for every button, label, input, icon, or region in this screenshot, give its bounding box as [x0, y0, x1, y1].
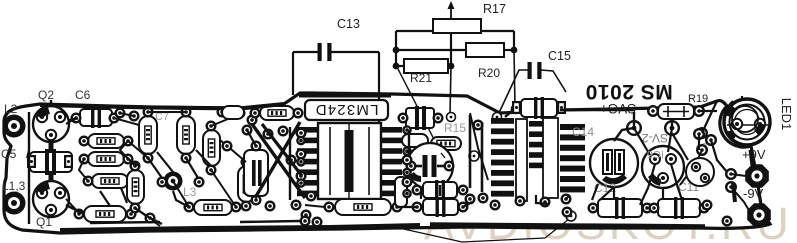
pad midleft3 — [222, 141, 233, 152]
svg-text:C6: C6 — [75, 88, 91, 102]
pad x7 — [306, 191, 317, 202]
svg-text:L1,3: L1,3 — [2, 179, 26, 193]
pad edge1 — [115, 108, 126, 119]
trace r1 — [128, 141, 148, 158]
wire right rail — [513, 31, 515, 50]
wire C13 right drop to IC pin — [378, 52, 380, 133]
connector slot right — [543, 118, 558, 198]
capacitor C9 vertical — [244, 150, 268, 196]
pad bl1 — [145, 213, 156, 224]
trace vt2 legs2 — [671, 164, 682, 200]
svg-text:L2: L2 — [4, 102, 18, 116]
trace midleft e — [220, 140, 246, 162]
svg-text:+9V: +9V — [742, 147, 766, 162]
trace r6 down — [211, 170, 236, 207]
capacitor C5 — [30, 149, 72, 175]
resistor R10 — [260, 106, 294, 120]
svg-text:C13: C13 — [337, 17, 360, 31]
svg-text:MS 2010: MS 2010 — [585, 80, 673, 103]
trace bottom rail — [60, 225, 420, 230]
capacitor C18 — [423, 197, 458, 217]
capacitor C6 — [80, 107, 112, 128]
wire R21 rail — [396, 65, 404, 67]
pad C6 left — [71, 113, 82, 124]
trace bottom rail right — [430, 225, 705, 227]
trace Q2 wedge — [36, 107, 50, 119]
capacitor C8 smd — [406, 106, 434, 130]
node junction left-mid — [393, 47, 400, 54]
pad e1 — [696, 127, 708, 139]
trace right cluster — [680, 150, 702, 185]
pad C16 right — [444, 161, 455, 172]
trace r19 corner — [702, 101, 717, 133]
resistor R13 — [431, 137, 461, 150]
trace edge band over LM324D — [299, 93, 391, 98]
wire C13 left lead — [293, 51, 319, 53]
trace diag end — [441, 153, 445, 158]
pad t1 — [235, 108, 246, 119]
inner bottom band left — [90, 222, 160, 223]
trace hex1 to LED — [750, 150, 752, 166]
trace rows gap a — [100, 191, 110, 206]
trace left rail taps — [27, 150, 29, 158]
trace C5 to Q1 — [49, 172, 54, 181]
capacitor C10 — [521, 97, 557, 119]
pad x5 — [301, 210, 312, 221]
wire C15 right lead — [541, 70, 566, 92]
trace Q2 to C5 — [49, 142, 54, 152]
svg-text:R19: R19 — [688, 93, 708, 105]
pad x2 — [286, 155, 297, 166]
svg-text:R21: R21 — [410, 71, 432, 85]
svg-text:R20: R20 — [478, 66, 500, 80]
trace L3 down — [173, 181, 189, 207]
pad y0 — [469, 151, 479, 161]
pad z1 — [561, 194, 572, 205]
pad C16 left — [406, 161, 417, 172]
wire C15 left lead to pad — [498, 70, 528, 115]
resistor R16 vertical — [395, 177, 407, 207]
pad z2 — [562, 207, 573, 218]
wire C13 right lead — [331, 51, 379, 53]
trace C10 down — [505, 110, 513, 117]
resistor R11 — [84, 206, 126, 222]
wire wiper to pad — [450, 66, 451, 114]
trace under ladder — [536, 195, 548, 204]
trace X cross 3 — [262, 124, 302, 176]
resistor R6 — [203, 130, 220, 166]
transistor Q1 — [33, 181, 69, 217]
pad C6 right — [109, 113, 120, 124]
trace top caps — [148, 111, 186, 113]
pads right cluster e3 — [693, 128, 705, 140]
trace left vertical rail — [28, 112, 30, 224]
trace X cross 1 — [252, 124, 305, 198]
pad C5 right — [64, 155, 73, 168]
capacitor C13 — [318, 43, 332, 61]
trace mid right — [470, 113, 488, 180]
IC label strip LM324D — [305, 100, 388, 120]
trace midleft c — [173, 191, 189, 207]
resistor R3 — [92, 174, 128, 188]
pad right rail target — [512, 105, 521, 114]
arrow of R17 wiper — [448, 1, 455, 19]
pads flanking IC right — [402, 155, 413, 166]
svg-text:SV-2: SV-2 — [642, 131, 668, 145]
trace s2 up — [671, 112, 673, 128]
LED inner ring — [732, 106, 758, 132]
resistor R5 — [335, 199, 391, 215]
resistor R14 small — [222, 106, 244, 119]
trace m1 — [247, 130, 256, 146]
inner bottom band mid — [240, 221, 300, 222]
capacitor C17 — [423, 180, 457, 200]
resistor R21 — [404, 59, 448, 73]
trace ladder feed — [469, 115, 472, 188]
trace ladder left column — [491, 118, 514, 124]
trace rail left of IC — [289, 127, 291, 200]
pad br2 — [722, 216, 733, 227]
transistor VT1 partial — [686, 158, 714, 186]
transistor Q3 wedge — [409, 172, 421, 182]
svg-text:IC6: IC6 — [647, 148, 664, 160]
pad -9V octagon — [747, 203, 771, 227]
svg-text:C14: C14 — [572, 125, 594, 139]
trace led legs — [741, 96, 743, 101]
trace r2 — [128, 159, 139, 166]
pad y3 — [490, 200, 501, 211]
pad f1 — [725, 168, 737, 180]
node junction left-low — [393, 63, 400, 70]
capacitor C16 elco — [407, 143, 453, 189]
resistor R2 — [88, 152, 124, 166]
LED arc extra — [724, 101, 733, 118]
resistor R8 — [194, 200, 232, 215]
trace R19 to LED — [699, 110, 717, 112]
capacitor C12 bottom — [598, 197, 642, 219]
trace L-mid diag 2 — [196, 150, 211, 166]
connector slot left — [516, 119, 527, 201]
pad C5 left — [27, 155, 36, 168]
trace rows gap b — [121, 188, 127, 203]
pad x3 — [265, 201, 276, 212]
trace C14 top — [614, 128, 634, 141]
pad b1 — [300, 216, 311, 227]
trace rows link — [79, 159, 88, 181]
LED1 — [724, 99, 770, 145]
pad e2 — [696, 144, 708, 156]
trace Q1 out — [66, 199, 80, 214]
pad C15 left target — [493, 113, 502, 122]
leader line bottom — [399, 219, 569, 242]
pad y1 — [473, 120, 484, 131]
node junction right — [511, 47, 518, 54]
resistor R9 — [238, 166, 255, 202]
trace mid bottom links — [397, 206, 417, 208]
pad L2 — [3, 115, 26, 138]
capacitor C14 elco — [590, 139, 638, 187]
pad edge3 — [217, 107, 228, 118]
resistor R19 — [658, 104, 694, 119]
trace C14 to C12 — [592, 184, 598, 200]
pad leader target — [566, 211, 576, 221]
pad x1 — [263, 129, 274, 140]
pad x6 — [278, 126, 289, 137]
svg-text:R17: R17 — [483, 2, 506, 16]
svg-text:L3: L3 — [183, 185, 197, 199]
svg-text:C15: C15 — [548, 49, 571, 63]
U1 pins left — [297, 127, 318, 133]
trace left bottom diag — [66, 205, 84, 214]
svg-text:Q2: Q2 — [38, 88, 54, 102]
trace midleft b — [186, 158, 198, 178]
trace e3 links — [698, 134, 700, 150]
pads on IC pins — [296, 136, 306, 146]
wire top rail — [396, 30, 433, 32]
trace mid bottom 2 — [463, 202, 472, 207]
pad lf2 — [515, 196, 526, 207]
resistor R7 — [127, 170, 144, 204]
resistor R4 — [139, 116, 157, 154]
trace X cross 2 — [255, 122, 300, 198]
wire R17 wiper drop — [450, 33, 452, 66]
pad L1,3 — [3, 192, 26, 215]
LED wedge — [754, 123, 766, 136]
trace Q2-C6 link — [68, 118, 78, 121]
trace vt2 legs — [640, 164, 655, 205]
trace c11 — [662, 188, 664, 199]
trace c12 — [613, 187, 615, 199]
trace ladder mid column — [529, 121, 543, 127]
wire right rail drop to pad — [514, 50, 515, 107]
trace top right edge — [560, 109, 634, 112]
svg-text:LM324D: LM324D — [315, 101, 379, 118]
pad m1 — [242, 125, 253, 136]
trace ladder feed3 — [481, 122, 484, 192]
trace hex2 — [731, 187, 750, 212]
trace under IC — [305, 205, 335, 208]
pad midleft1 — [157, 177, 168, 188]
trace top edge thick — [40, 104, 284, 109]
trace c6 r4 — [114, 118, 139, 125]
trace vt2 — [634, 128, 650, 155]
pad midleft2 — [194, 177, 205, 188]
op-amp U1 body — [318, 123, 381, 199]
capacitor C11 bottom — [658, 197, 700, 219]
trace e3b — [711, 140, 727, 172]
resistor R20 — [466, 43, 504, 57]
pad C10 right — [557, 101, 566, 114]
wire diagonal from R21 node into board — [397, 67, 441, 153]
svg-text:R15: R15 — [444, 121, 466, 135]
node junction wiper — [448, 63, 455, 70]
trace bottom1 — [135, 208, 160, 226]
svg-text:C5: C5 — [1, 147, 17, 161]
trace Q3 down — [420, 189, 422, 199]
resistor R17 — [433, 19, 481, 33]
trace right edge col — [600, 187, 614, 200]
pad f2 — [725, 181, 737, 193]
trace Q1 wedge — [36, 182, 50, 194]
trace rail right of IC — [408, 130, 410, 156]
trace Q2 top stub — [50, 100, 52, 106]
resistor R1 — [88, 134, 124, 148]
pad s1 — [626, 120, 642, 136]
trace bl1 — [135, 208, 162, 224]
trace edge drop 1 — [120, 113, 134, 116]
pad +9V octagon — [745, 164, 769, 188]
pad x4 — [291, 200, 302, 211]
svg-text:SVG+: SVG+ — [600, 101, 637, 116]
wire middle rail — [396, 49, 466, 51]
pad s2 — [664, 120, 680, 136]
trace top edge left — [40, 105, 282, 109]
capacitor C7 — [177, 116, 195, 154]
pad y2 — [478, 193, 489, 204]
pad R15 top — [447, 113, 456, 122]
trace to pads — [211, 114, 240, 126]
capacitor C15 — [528, 62, 542, 79]
pad t2 — [247, 115, 258, 126]
pad lf1 — [465, 194, 476, 205]
trace L-mid diag 1 — [157, 152, 173, 172]
trace ladder out — [566, 195, 570, 199]
trace ladder right column — [560, 124, 585, 130]
pad br1 — [702, 200, 713, 211]
pad edge2 — [129, 111, 140, 122]
svg-text:-9V: -9V — [743, 186, 764, 201]
transistor VT2 wedge — [648, 173, 661, 186]
trace s2 diag — [672, 133, 688, 160]
board outline — [4, 93, 770, 233]
trace C16 down — [439, 185, 441, 196]
pad b2 — [312, 217, 323, 228]
transistor Q2 — [33, 106, 69, 142]
resistor R12 — [402, 134, 428, 147]
trace left mid — [66, 118, 76, 124]
trace minus bar — [733, 183, 735, 202]
trace vt2b — [668, 128, 672, 152]
wire C13 left drop to board — [292, 52, 294, 95]
pad L3 — [164, 172, 183, 191]
wire left rail — [395, 31, 397, 66]
trace midleft a — [148, 158, 162, 178]
pads flanking IC left — [296, 128, 307, 139]
transistor VT2 — [642, 146, 684, 188]
trace midleft d — [120, 141, 135, 166]
trace s1 up — [633, 112, 635, 128]
svg-text:LED1: LED1 — [779, 98, 794, 131]
U1 pins right — [381, 127, 402, 133]
pad C10 left — [512, 101, 521, 114]
pad lf3 — [540, 197, 551, 208]
trace hex links — [731, 174, 746, 176]
